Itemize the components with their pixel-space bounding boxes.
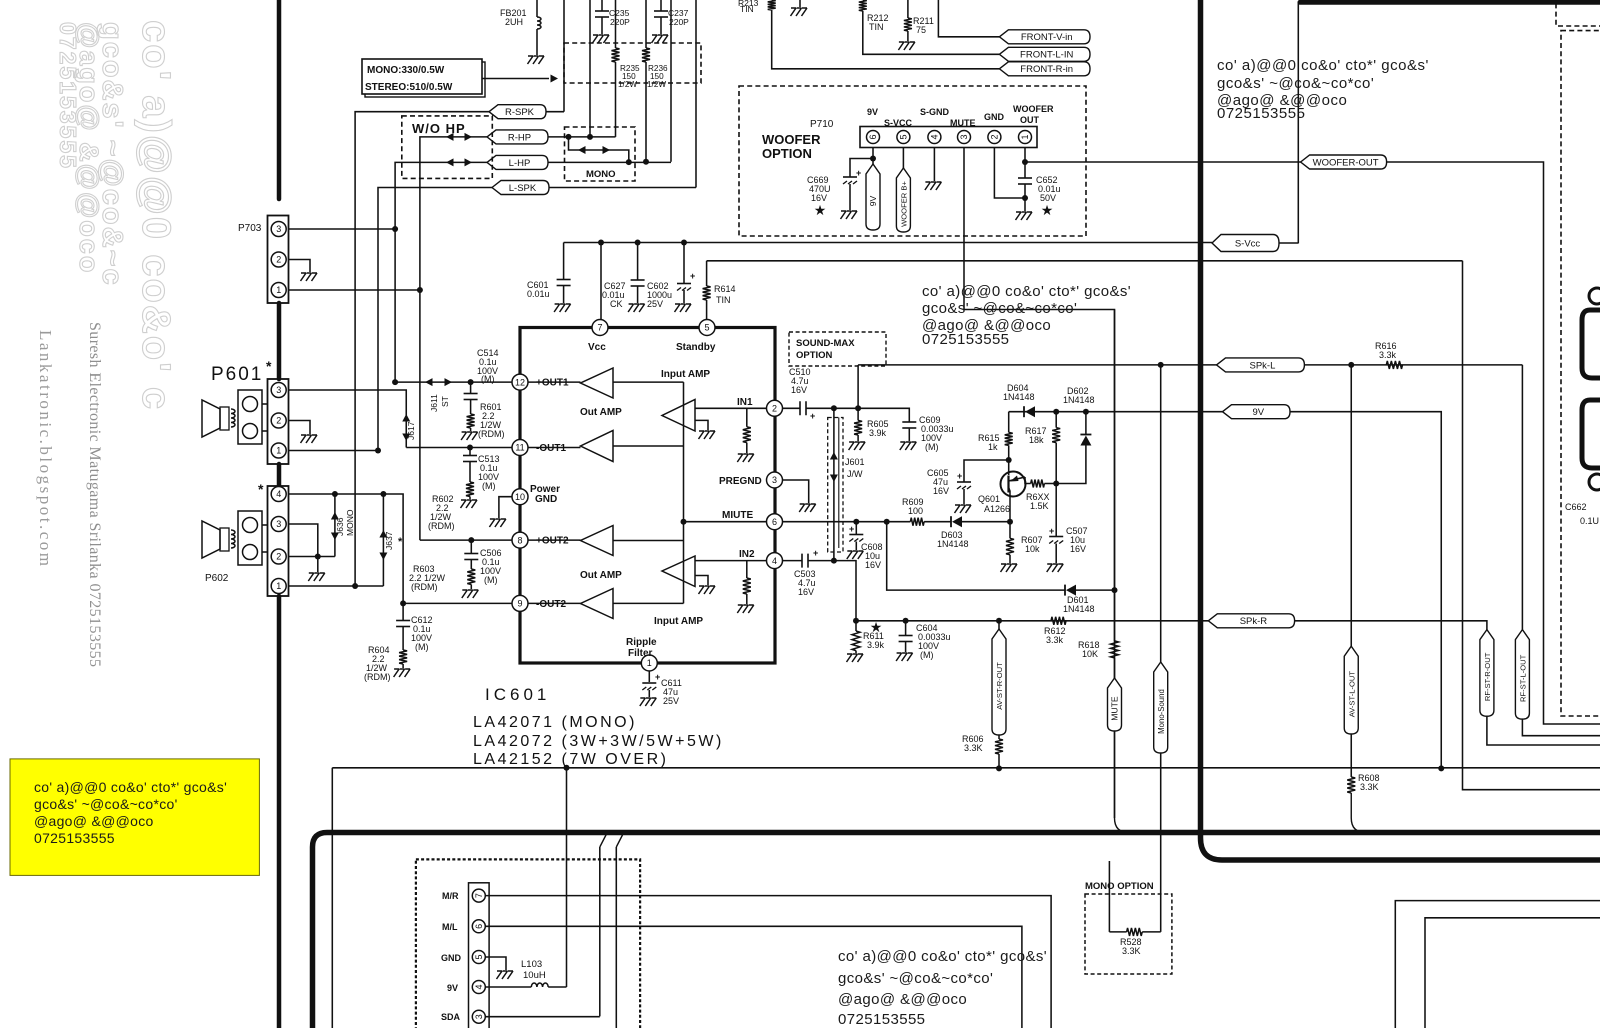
pin P602-2 bbox=[271, 549, 286, 564]
svg-text:S-GND: S-GND bbox=[920, 107, 950, 117]
svg-text:+: + bbox=[690, 271, 695, 281]
node tag SPk-R bbox=[1208, 614, 1294, 628]
resistor R617 bbox=[1052, 428, 1060, 443]
wire C605 gnd bbox=[963, 489, 965, 504]
svg-text:SPk-L: SPk-L bbox=[1250, 360, 1276, 371]
capacitor C506 bbox=[464, 553, 478, 555]
box right dashed region bbox=[1561, 31, 1600, 716]
svg-text:GND: GND bbox=[535, 494, 557, 505]
svg-text:3: 3 bbox=[959, 134, 969, 139]
wire R212 to FRONT-L-IN bbox=[863, 11, 1000, 54]
junction C612 bbox=[400, 600, 406, 606]
node tag S-Vcc bbox=[1212, 235, 1279, 252]
svg-text:100: 100 bbox=[908, 506, 923, 516]
junction J636 top bbox=[332, 491, 338, 497]
wire S-Vcc riser bbox=[1297, 2, 1299, 243]
wire C514 stub bbox=[470, 382, 472, 393]
capacitor C604 bbox=[899, 635, 913, 637]
box W/O HP dashed bbox=[402, 116, 493, 178]
wire MUTE pin3 long bbox=[964, 148, 1115, 819]
capacitor C513 bbox=[463, 455, 477, 457]
wire R607 top bbox=[1009, 522, 1011, 539]
svg-text:OUT: OUT bbox=[1020, 115, 1040, 125]
junction L-HP mono jog bbox=[626, 159, 632, 165]
ground bbox=[301, 435, 318, 443]
ground bbox=[699, 586, 716, 594]
wire collector node bbox=[1009, 521, 1010, 523]
wire AV-ST-R stub bbox=[998, 621, 1000, 629]
inductor L103 bbox=[531, 983, 548, 987]
junction J637 top bbox=[380, 491, 386, 497]
ground bbox=[308, 573, 325, 581]
resistor R615 bbox=[1005, 432, 1013, 445]
wire spk1 a bbox=[262, 403, 268, 405]
wire R617 down bbox=[1055, 443, 1057, 537]
svg-text:1: 1 bbox=[1020, 134, 1030, 139]
wire Vcc rail bbox=[564, 242, 1212, 244]
wire to C605 bbox=[964, 460, 1009, 482]
inductor FB201 bbox=[537, 17, 541, 29]
transistor Q601 bbox=[1001, 472, 1026, 497]
svg-text:P601: P601 bbox=[211, 364, 263, 385]
wire D602 to node bbox=[1056, 446, 1086, 484]
junction D602 9V bbox=[1083, 409, 1089, 415]
ground bbox=[554, 304, 571, 312]
wire 9V pin to L103 bbox=[486, 986, 532, 988]
resistor IN1 internal bbox=[743, 427, 751, 443]
svg-text:11: 11 bbox=[515, 443, 524, 453]
wire feed vertical bbox=[683, 382, 685, 603]
wire pin2 to C510 bbox=[783, 407, 801, 409]
svg-text:TIN: TIN bbox=[869, 22, 884, 32]
wire GND pin bbox=[486, 957, 507, 970]
resistor R212 bbox=[859, 0, 867, 11]
op-amp OutAmp2 bbox=[581, 526, 614, 556]
ground bbox=[628, 304, 645, 312]
wire RF-ST-R-OUT out bbox=[1487, 716, 1600, 745]
wire R602 gnd bbox=[469, 497, 471, 500]
svg-text:9: 9 bbox=[517, 599, 522, 609]
wire top ground stub bbox=[799, 0, 801, 7]
svg-text:Standby: Standby bbox=[676, 342, 716, 353]
junction +OUT1 start bbox=[392, 379, 398, 385]
wire IN2 res top bbox=[746, 561, 748, 578]
wire to C669 bbox=[850, 159, 873, 178]
wire spk1 b bbox=[262, 430, 268, 432]
svg-text:AV-ST-L-OUT: AV-ST-L-OUT bbox=[1347, 671, 1356, 718]
node jumper J611 arrows bbox=[425, 378, 433, 386]
svg-text:C662: C662 bbox=[1565, 502, 1587, 512]
wire R-HP to +OUT2 bbox=[420, 137, 487, 540]
connector P601 bbox=[268, 379, 289, 464]
svg-text:RF-ST-L-OUT: RF-ST-L-OUT bbox=[1519, 654, 1528, 702]
capacitor C601 bbox=[557, 279, 571, 281]
wire C237 stub bbox=[660, 0, 662, 11]
ground bbox=[737, 454, 754, 462]
junction R6XX R617 bbox=[1053, 481, 1059, 487]
wire pin5 stub bbox=[902, 148, 904, 169]
wire MUTE vert upper bbox=[1114, 310, 1116, 641]
svg-text:10K: 10K bbox=[1082, 649, 1098, 659]
ground bbox=[841, 211, 858, 219]
ground bbox=[791, 8, 808, 16]
svg-text:10: 10 bbox=[515, 492, 525, 502]
wire C608 stub bbox=[855, 522, 857, 535]
ground bbox=[593, 35, 610, 43]
svg-text:co' a)@@0 co&o' c: co' a)@@0 co&o' c bbox=[134, 20, 178, 411]
junction C513 bbox=[467, 445, 473, 451]
node tag RF-ST-L-OUT bbox=[1515, 630, 1529, 720]
svg-text:*: * bbox=[258, 481, 264, 497]
pin IC601-10 bbox=[512, 489, 528, 505]
pin P703-1 bbox=[271, 283, 286, 298]
connector bottom strip bbox=[469, 883, 490, 1028]
wire P602 pin4 to -OUT2 bbox=[289, 494, 404, 603]
wire L-SPK riser x696 bbox=[695, 0, 697, 188]
node tag R-HP bbox=[487, 130, 548, 144]
svg-text:9V: 9V bbox=[867, 107, 878, 117]
op-amp OutAmp2b bbox=[581, 589, 614, 619]
capacitor C611 bbox=[642, 682, 656, 684]
wire bus tap to SDA bbox=[599, 847, 601, 1016]
wire SPk-R right bbox=[1295, 621, 1487, 630]
svg-text:+: + bbox=[813, 548, 818, 558]
svg-text:gco&s' ~@co&~co*co': gco&s' ~@co&~co*co' bbox=[922, 300, 1077, 317]
svg-text:MONO OPTION: MONO OPTION bbox=[1085, 881, 1154, 892]
svg-text:co' a)@@0 co&o' cto*' gco&s': co' a)@@0 co&o' cto*' gco&s' bbox=[838, 948, 1047, 965]
diode D604 bbox=[1023, 406, 1025, 417]
svg-text:TIN: TIN bbox=[740, 4, 754, 14]
junction R-HP x590 bbox=[587, 134, 593, 140]
wire pin1 stub bbox=[1024, 148, 1026, 179]
svg-text:J601: J601 bbox=[845, 457, 865, 467]
capacitor C510 bbox=[800, 401, 806, 415]
ground bbox=[461, 500, 478, 508]
wire pin2 to C652 bbox=[994, 148, 1025, 199]
svg-text:GND: GND bbox=[984, 112, 1005, 122]
wire pin10 to ground bbox=[499, 497, 512, 518]
wire bus tap 2 bbox=[615, 847, 617, 1028]
pin IC601-9 bbox=[512, 595, 528, 611]
pin P710-4 bbox=[928, 131, 941, 144]
svg-text:J/W: J/W bbox=[847, 469, 863, 479]
svg-text:J636: J636 bbox=[335, 517, 345, 536]
node yellow sticker box bbox=[10, 759, 259, 876]
ground bbox=[896, 653, 913, 661]
junction D601 MUTE bbox=[1112, 587, 1118, 593]
junction L103 riser bbox=[564, 765, 570, 771]
wire +OUT2 ext bbox=[420, 539, 512, 541]
svg-text:0.01u: 0.01u bbox=[527, 289, 550, 299]
svg-text:Filter: Filter bbox=[628, 648, 653, 659]
svg-text:1N4148: 1N4148 bbox=[1003, 392, 1035, 402]
wire SPk-L right bbox=[1304, 364, 1522, 366]
svg-text:WOOFER: WOOFER bbox=[762, 132, 821, 147]
pin IC601-11 bbox=[512, 440, 528, 456]
node tag WOOFER-OUT bbox=[1301, 155, 1387, 169]
svg-text:2: 2 bbox=[276, 416, 281, 426]
svg-text:1N4148: 1N4148 bbox=[937, 539, 969, 549]
speaker symbol 1 bbox=[202, 400, 220, 437]
box WOOFER OPTION dashed bbox=[739, 86, 1086, 236]
pin P710-3 bbox=[958, 131, 971, 144]
svg-text:(M): (M) bbox=[415, 642, 429, 652]
wire C669 to ground bbox=[849, 184, 851, 210]
wire -OUT1 ext bbox=[406, 447, 512, 449]
box bottom connector dashed bbox=[416, 859, 640, 1028]
svg-text:MUTE: MUTE bbox=[1110, 696, 1120, 721]
junction C514 bbox=[468, 379, 474, 385]
svg-text:MUTE: MUTE bbox=[950, 118, 976, 128]
wire C627 to ground bbox=[637, 287, 639, 304]
junction P703-3 bbox=[392, 226, 398, 232]
pin IC601-3 bbox=[767, 472, 783, 488]
wire R-HP riser x590 bbox=[589, 0, 591, 137]
box top-right corner dashed fragment bbox=[1556, 0, 1600, 26]
svg-text:0725153555: 0725153555 bbox=[1217, 105, 1305, 122]
svg-text:MONO: MONO bbox=[586, 169, 616, 180]
wire C627 stub bbox=[637, 243, 639, 281]
junction pin7 bbox=[598, 240, 604, 246]
node arrowhead bbox=[551, 75, 559, 83]
svg-text:4: 4 bbox=[930, 134, 940, 139]
svg-text:IN2: IN2 bbox=[739, 549, 755, 560]
wire P602 pin3 down bbox=[289, 524, 318, 557]
wire C652 down bbox=[1024, 184, 1026, 211]
capacitor C605 bbox=[957, 481, 971, 483]
pin P710-5 bbox=[897, 131, 910, 144]
svg-text:-OUT1: -OUT1 bbox=[536, 443, 566, 454]
svg-text:3.3K: 3.3K bbox=[964, 743, 983, 753]
svg-text:3: 3 bbox=[474, 1014, 484, 1019]
svg-text:R-SPK: R-SPK bbox=[505, 107, 535, 118]
svg-text:1k: 1k bbox=[988, 442, 998, 452]
resistor R601 bbox=[467, 414, 475, 428]
resistor R6XX bbox=[1031, 480, 1045, 488]
svg-text:SPk-R: SPk-R bbox=[1240, 616, 1268, 627]
wire C608 gnd bbox=[855, 542, 857, 551]
svg-text:Mono-Sound: Mono-Sound bbox=[1157, 689, 1166, 734]
junction Q601 collector bbox=[1007, 519, 1013, 525]
wire R235 top bbox=[615, 0, 617, 48]
wire R213 to FRONT-R-in bbox=[772, 10, 1000, 69]
wire M/L line bbox=[486, 926, 1022, 1028]
svg-text:2: 2 bbox=[990, 134, 1000, 139]
svg-text:L-SPK: L-SPK bbox=[509, 183, 537, 194]
svg-text:★: ★ bbox=[870, 619, 883, 635]
svg-text:FRONT-R-in: FRONT-R-in bbox=[1020, 64, 1073, 75]
svg-text:16V: 16V bbox=[1070, 544, 1086, 554]
capacitor C669 bbox=[843, 176, 857, 178]
wire R617 top bbox=[1055, 412, 1057, 428]
wire WOOFER-OUT to right edge bbox=[1387, 162, 1600, 724]
wire to ground bbox=[317, 557, 319, 573]
wire C513-R602 bbox=[469, 462, 471, 483]
svg-text:P602: P602 bbox=[205, 573, 229, 584]
svg-text:@ago@ &@@oco: @ago@ &@@oco bbox=[838, 991, 967, 1008]
wire R605 top bbox=[857, 408, 859, 420]
pin IC601-4 bbox=[767, 553, 783, 569]
wire thick bus2 main vertical bbox=[1201, 0, 1600, 860]
ground bbox=[699, 431, 716, 439]
svg-text:25V: 25V bbox=[663, 696, 679, 706]
svg-text:(RDM): (RDM) bbox=[411, 582, 438, 592]
wire IN1 res top bbox=[746, 408, 748, 427]
svg-text:1N4148: 1N4148 bbox=[1063, 395, 1095, 405]
node tag FRONT-L-IN bbox=[999, 47, 1090, 61]
svg-text:W/O HP: W/O HP bbox=[412, 121, 466, 136]
wire FB201 to ground bbox=[536, 29, 538, 55]
svg-text:3.3k: 3.3k bbox=[1046, 635, 1064, 645]
wire R-SPK to riser bbox=[546, 111, 564, 113]
wire R236 top bbox=[645, 0, 647, 48]
pin P602-3 bbox=[271, 517, 286, 532]
wire SPk-R line bbox=[856, 620, 1208, 622]
ground bbox=[900, 442, 917, 450]
node jumper J617 arrows bbox=[402, 414, 410, 422]
ground bbox=[652, 35, 669, 43]
svg-text:P710: P710 bbox=[810, 119, 834, 130]
pin P601-2 bbox=[271, 413, 286, 428]
svg-text:★: ★ bbox=[814, 202, 827, 218]
junction P703-1 bbox=[417, 287, 423, 293]
wire C510 to R605 bbox=[806, 407, 858, 409]
wire R615 top bbox=[1008, 412, 1010, 433]
node tag SPk-L bbox=[1217, 358, 1305, 372]
node tag 9V vertical bbox=[866, 164, 880, 230]
svg-text:OPTION: OPTION bbox=[762, 146, 812, 161]
wire R611 top bbox=[855, 621, 857, 631]
svg-text:(M): (M) bbox=[482, 481, 496, 491]
pin P710-6 bbox=[867, 131, 880, 144]
svg-text:25V: 25V bbox=[647, 299, 663, 309]
wire pin4 stub bbox=[933, 148, 935, 182]
node tag AV-ST-R-OUT bbox=[992, 629, 1006, 735]
wire IN1 res bottom bbox=[746, 443, 748, 453]
wire riser to L103 bbox=[566, 768, 568, 987]
pin P601-3 bbox=[271, 383, 286, 398]
box MONO dashed bbox=[565, 127, 636, 181]
wire R6XX to node bbox=[1044, 483, 1056, 485]
node tag Mono-Sound bbox=[1154, 662, 1168, 753]
ground bbox=[847, 654, 864, 662]
ground bbox=[849, 442, 866, 450]
capacitor C503 bbox=[802, 554, 808, 568]
svg-text:0725153555: 0725153555 bbox=[34, 830, 115, 846]
svg-text:6: 6 bbox=[474, 924, 484, 929]
wire C611 to ground bbox=[648, 690, 650, 697]
resistor R618 bbox=[1111, 641, 1119, 658]
svg-text:220P: 220P bbox=[610, 17, 630, 27]
wire +OUT2 int bbox=[528, 539, 581, 541]
wire R236 to L-HP line bbox=[645, 62, 647, 162]
wire R609 to D603 bbox=[924, 521, 951, 523]
svg-text:gco&s' ~@co&~co*co': gco&s' ~@co&~co*co' bbox=[838, 970, 993, 987]
wire spk2 b bbox=[262, 551, 268, 553]
pin bottom-3 bbox=[472, 1010, 485, 1023]
wire Mono-Sound upper bbox=[1160, 365, 1162, 662]
capacitor C608 bbox=[849, 534, 863, 536]
svg-text:LA42152 (7W OVER): LA42152 (7W OVER) bbox=[473, 751, 668, 768]
wire C612 stub bbox=[402, 603, 404, 620]
wire C514-R601 bbox=[470, 400, 472, 415]
wire P601 pin2 to ground bbox=[289, 421, 311, 435]
wire R-HP line right bbox=[548, 136, 616, 138]
pin bottom-6 bbox=[472, 920, 485, 933]
capacitor C627 bbox=[631, 279, 645, 281]
svg-text:Out AMP: Out AMP bbox=[580, 570, 622, 581]
wire thick P601-P602 bbox=[277, 464, 282, 486]
svg-text:3: 3 bbox=[276, 224, 281, 234]
wire R606 down bbox=[998, 754, 1000, 768]
svg-text:M/L: M/L bbox=[442, 922, 458, 932]
wire MUTE curve to bus bbox=[1115, 731, 1130, 833]
junction R605 bbox=[855, 405, 861, 411]
svg-text:6: 6 bbox=[868, 134, 878, 139]
resistor R604 bbox=[399, 650, 407, 664]
svg-text:5: 5 bbox=[704, 323, 709, 333]
svg-text:4: 4 bbox=[276, 489, 281, 499]
connector P602 bbox=[268, 486, 289, 596]
wire arrow from info box bbox=[482, 78, 549, 80]
node jumper arrows R-HP bbox=[446, 133, 454, 141]
wire L-SPK to P601 pin1 bbox=[378, 188, 492, 451]
svg-text:★: ★ bbox=[1041, 202, 1054, 218]
wire R-SPK riser x564 bbox=[563, 0, 565, 112]
svg-text:Ripple: Ripple bbox=[626, 637, 657, 648]
wire emitter to R6XX bbox=[1025, 477, 1031, 484]
wire R615 to Q601 bbox=[1008, 445, 1010, 475]
pin P710-1 bbox=[1019, 131, 1032, 144]
svg-text:R614: R614 bbox=[714, 284, 736, 294]
ground bbox=[898, 42, 915, 50]
wire MUTE int bbox=[684, 521, 767, 523]
svg-text:IN1: IN1 bbox=[737, 397, 753, 408]
svg-text:J637: J637 bbox=[384, 531, 394, 550]
svg-text:Out AMP: Out AMP bbox=[580, 407, 622, 418]
ground bbox=[955, 505, 972, 513]
svg-text:J617: J617 bbox=[406, 421, 416, 440]
svg-text:9V: 9V bbox=[1252, 407, 1264, 418]
junction J601 bottom bbox=[831, 558, 837, 564]
wire RF-ST-L-OUT out bbox=[1522, 719, 1600, 736]
wire P703 pin3 bbox=[289, 228, 396, 230]
capacitor C609 bbox=[902, 421, 916, 423]
wire P602 pin2 bbox=[289, 556, 335, 558]
connector P703 bbox=[268, 216, 289, 304]
connector speaker2 terminals bbox=[238, 511, 262, 565]
wire R605 gnd bbox=[857, 435, 859, 441]
pin IC601-5 bbox=[699, 320, 715, 336]
wire L103 to riser bbox=[548, 986, 566, 988]
junction AV-ST-L bbox=[1348, 362, 1354, 368]
node jumper J637 arrows bbox=[379, 530, 387, 538]
svg-text:S-Vcc: S-Vcc bbox=[1235, 238, 1261, 249]
svg-text:0725153555: 0725153555 bbox=[838, 1011, 925, 1028]
svg-text:1.5K: 1.5K bbox=[1030, 501, 1049, 511]
wire thick P602 down bbox=[277, 596, 282, 1028]
node tag WOOFER B+ bbox=[896, 168, 910, 232]
svg-text:RF-ST-R-OUT: RF-ST-R-OUT bbox=[1483, 652, 1492, 701]
wire M/R line bbox=[486, 896, 1052, 1028]
junction D601 branch bbox=[884, 519, 890, 525]
wire tag to R606 bbox=[998, 735, 1000, 739]
pin IC601-8 bbox=[512, 532, 528, 548]
resistor R605 bbox=[854, 420, 862, 435]
wire L-SPK line right bbox=[549, 187, 696, 189]
svg-text:+: + bbox=[856, 168, 861, 178]
wire to D601 bbox=[887, 522, 1065, 590]
